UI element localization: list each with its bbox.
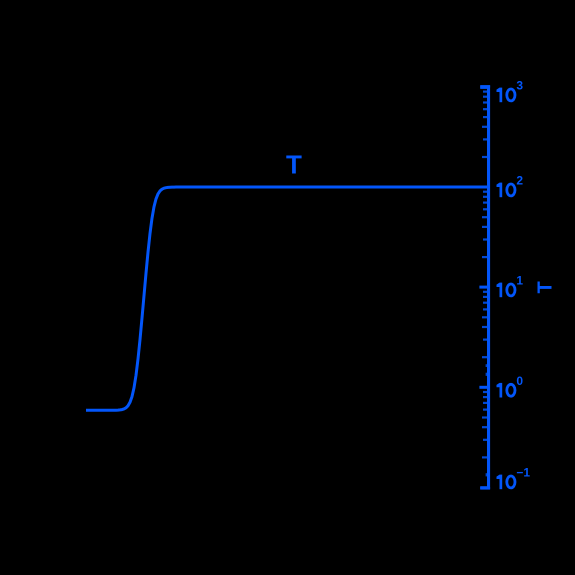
tick label 10^3 [497,79,524,103]
svg-text:1: 1 [516,274,523,288]
major tick 10^0 [479,386,487,389]
svg-text:3: 3 [516,79,523,93]
major tick 10^-1 (bottom cap) [480,486,487,489]
curve T(x) [86,187,490,410]
minor ticks decade 10^0..10^1 [482,291,487,359]
tick label 10^-1 [497,466,531,490]
svg-text:T: T [534,281,556,293]
svg-text:−1: −1 [516,466,530,480]
major tick 10^1 [479,286,487,289]
sub-minor tick bumps (1.x values) [486,364,488,476]
right axis line [487,85,490,489]
svg-text:0: 0 [516,374,523,388]
minor ticks decade 10^-1..10^0 [482,391,487,459]
tick label 10^0 [497,374,524,398]
svg-text:2: 2 [516,174,523,188]
svg-text:T: T [286,149,302,179]
tick label 10^2 [497,174,524,198]
tick label 10^1 [497,274,524,298]
major tick 10^2 [479,186,487,189]
major tick 10^3 (top cap) [480,86,487,89]
minor ticks decade 10^1..10^2 [482,191,487,259]
minor ticks decade 10^2..10^3 [482,91,487,159]
